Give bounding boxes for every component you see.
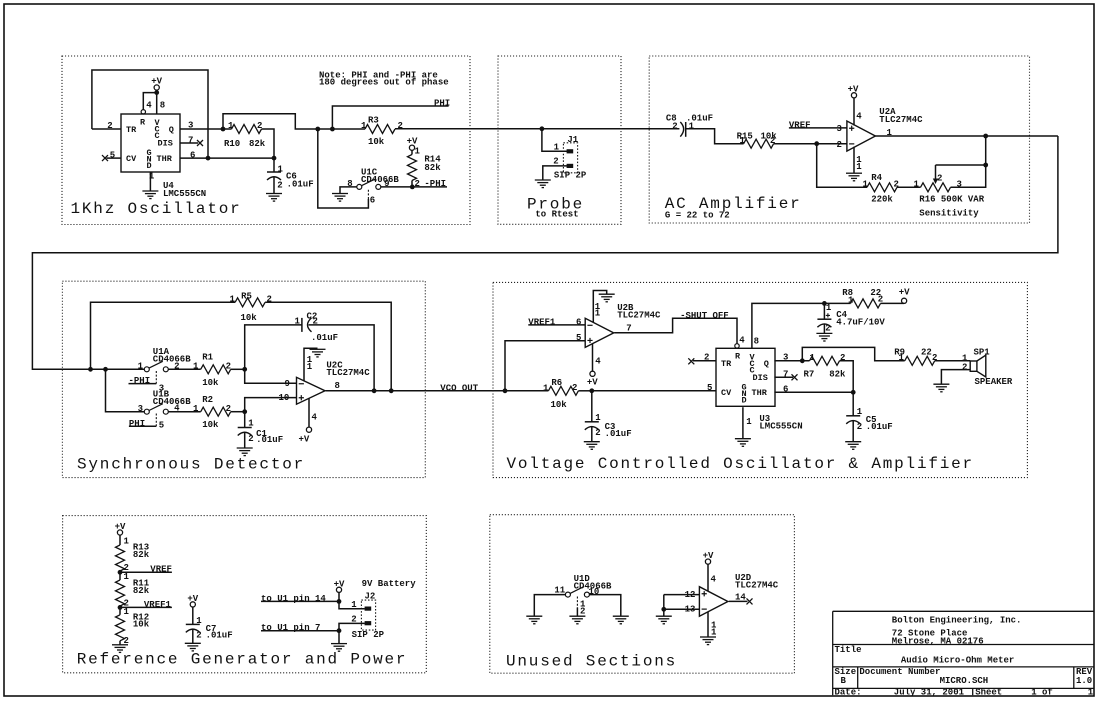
- svg-text:+V: +V: [115, 522, 126, 532]
- svg-text:TLC27M4C: TLC27M4C: [617, 311, 661, 321]
- svg-text:R: R: [735, 352, 741, 362]
- op-amp U2B: [585, 318, 614, 347]
- svg-text:1: 1: [228, 121, 234, 131]
- svg-text:Q: Q: [169, 125, 174, 135]
- svg-text:10: 10: [279, 393, 290, 403]
- svg-text:+V: +V: [187, 594, 198, 604]
- wire VREF1 stub: [120, 606, 172, 608]
- wire U2B output to U3 pin4: [614, 318, 737, 343]
- svg-text:+V: +V: [407, 137, 418, 147]
- ground U4 pin1: [142, 191, 158, 199]
- svg-text:.01uF: .01uF: [287, 179, 314, 189]
- wire C2 to output node: [309, 325, 375, 391]
- wire VREF1 to U2B pin6: [528, 324, 585, 326]
- node input A: [88, 367, 93, 372]
- node inverting input: [814, 141, 819, 146]
- wire U2A output: [875, 135, 1058, 137]
- svg-text:1: 1: [689, 122, 695, 132]
- svg-text:-PHI: -PHI: [424, 179, 446, 189]
- svg-text:82k: 82k: [249, 139, 266, 149]
- node VREF1: [118, 605, 123, 610]
- wire C2 branch: [245, 325, 302, 369]
- svg-text:1: 1: [124, 537, 130, 547]
- wire R10 pin2 to THR node: [262, 129, 275, 158]
- svg-text:82k: 82k: [133, 550, 150, 560]
- svg-text:22: 22: [921, 347, 932, 357]
- svg-text:7: 7: [626, 324, 631, 334]
- wire U4 pin7 DIS: [180, 142, 198, 144]
- potentiometer R16: [921, 183, 951, 192]
- svg-text:82k: 82k: [133, 586, 150, 596]
- wire U4 pin3 Q to R10: [180, 128, 232, 130]
- svg-text:.01uF: .01uF: [311, 333, 338, 343]
- svg-text:J1: J1: [567, 135, 578, 145]
- power +V U2A: [851, 93, 856, 98]
- wire node to U2C pin10: [245, 398, 297, 412]
- svg-text:1: 1: [914, 180, 920, 190]
- R16 wiper arrow: [935, 165, 937, 180]
- wire wiper to output node: [936, 164, 986, 166]
- svg-text:CD4066B: CD4066B: [361, 175, 399, 185]
- svg-text:Title: Title: [835, 645, 862, 655]
- wire U3 pin8 VCC: [752, 303, 825, 348]
- op-amp U2D: [699, 587, 728, 617]
- svg-text:VREF1: VREF1: [528, 318, 556, 328]
- svg-text:4: 4: [312, 413, 318, 423]
- svg-text:12: 12: [685, 590, 696, 600]
- wire R12 to ground: [119, 641, 121, 645]
- power +V R13: [117, 530, 122, 535]
- wire R4 to R16: [897, 186, 921, 188]
- ground C5: [845, 442, 861, 450]
- svg-text:8: 8: [160, 101, 165, 111]
- svg-text:R6: R6: [551, 378, 562, 388]
- svg-text:.01uF: .01uF: [256, 435, 283, 445]
- svg-text:-SHUT OFF: -SHUT OFF: [680, 311, 729, 321]
- svg-text:.01uF: .01uF: [206, 630, 233, 640]
- svg-text:4: 4: [739, 336, 745, 346]
- svg-text:VREF1: VREF1: [144, 600, 172, 610]
- svg-text:6: 6: [370, 196, 375, 206]
- wire to R8: [824, 302, 850, 304]
- node Q output: [221, 127, 226, 132]
- node battery minus: [337, 628, 342, 633]
- svg-text:Date:: Date:: [835, 688, 862, 698]
- U4 pin4 bubble: [141, 110, 145, 114]
- node output feedback: [983, 134, 988, 139]
- node R2 output: [242, 409, 247, 414]
- wire U2B pin11 to ground: [593, 291, 606, 323]
- wire input bus: [91, 368, 147, 370]
- svg-text:THR: THR: [157, 154, 173, 164]
- no-connect U2D pin14: [747, 598, 753, 604]
- svg-text:5: 5: [576, 333, 581, 343]
- switch U1D: [565, 587, 589, 598]
- svg-text:1: 1: [230, 295, 236, 305]
- svg-text:1: 1: [554, 143, 560, 153]
- svg-text:2: 2: [837, 140, 842, 150]
- capacitor C4 polarized: [823, 303, 825, 319]
- svg-text:220k: 220k: [871, 195, 893, 205]
- wire U3 pin1 GND: [742, 407, 744, 439]
- svg-text:+V: +V: [703, 551, 714, 561]
- svg-text:4.7uF/10V: 4.7uF/10V: [836, 318, 885, 328]
- U1D control dashed: [576, 597, 578, 608]
- svg-text:CD4066B: CD4066B: [153, 355, 191, 365]
- svg-text:2: 2: [857, 422, 862, 432]
- svg-text:PHI: PHI: [129, 419, 145, 429]
- svg-text:1: 1: [856, 162, 862, 172]
- resistor R11: [116, 580, 125, 606]
- svg-text:1: 1: [351, 600, 357, 610]
- resistor R10: [232, 125, 262, 134]
- svg-text:.01uF: .01uF: [866, 422, 893, 432]
- node wiper junction: [983, 163, 988, 168]
- svg-text:10k: 10k: [368, 137, 385, 147]
- wire U1D pin11 to ground: [534, 595, 565, 617]
- svg-text:D: D: [742, 395, 747, 405]
- wire probe tap to J1 pin1: [542, 129, 567, 151]
- svg-text:PHI: PHI: [434, 98, 450, 108]
- ground U1D pin11: [526, 616, 542, 624]
- ground C4: [816, 333, 832, 341]
- svg-text:82k: 82k: [424, 163, 441, 173]
- wire R5 to output node: [265, 302, 391, 391]
- resistor R2: [201, 407, 231, 416]
- -PHI control stub: [129, 383, 157, 385]
- wire U4 pin5 CV: [107, 157, 122, 159]
- svg-text:B: B: [841, 676, 847, 686]
- ground U2D input: [656, 616, 672, 624]
- no-connect U4 pin5: [102, 155, 108, 161]
- wire U1C pin9 to R14: [381, 186, 413, 188]
- svg-text:+V: +V: [587, 377, 598, 387]
- svg-text:+V: +V: [899, 288, 910, 298]
- title block frame: [833, 611, 1094, 695]
- U1C control dashed: [367, 189, 369, 200]
- svg-text:SIP 2P: SIP 2P: [554, 171, 587, 181]
- U4 555 timer body: [121, 114, 180, 172]
- resistor R12: [116, 615, 125, 641]
- no-connect U3 pin7: [792, 374, 798, 380]
- svg-text:180 degrees out of phase: 180 degrees out of phase: [319, 78, 449, 88]
- wire U2B pin4 to +V: [592, 343, 594, 371]
- svg-text:2: 2: [704, 353, 709, 363]
- svg-text:D: D: [147, 161, 152, 171]
- no-connect U3 pin2: [688, 358, 694, 364]
- node C2 feedback: [372, 388, 377, 393]
- svg-text:1: 1: [248, 419, 254, 429]
- resistor R14: [408, 155, 417, 181]
- svg-text:2: 2: [107, 121, 112, 131]
- node R14 bottom: [410, 185, 415, 190]
- wire R15 to U2A pin2: [774, 143, 847, 145]
- svg-text:10k: 10k: [133, 620, 150, 630]
- wire U1A to R1: [168, 368, 200, 370]
- wire U3 pin6 THR: [774, 391, 853, 393]
- svg-text:1: 1: [899, 353, 905, 363]
- resistor R6: [548, 386, 578, 395]
- svg-text:10k: 10k: [551, 400, 568, 410]
- wire U3 pin2 TR: [693, 360, 716, 362]
- svg-text:1: 1: [887, 128, 893, 138]
- switch U1A: [144, 361, 168, 372]
- svg-text:2: 2: [672, 122, 677, 132]
- svg-text:1: 1: [307, 362, 313, 372]
- svg-text:6: 6: [783, 384, 788, 394]
- wire R8 to +V: [881, 302, 905, 304]
- section box Reference Generator: [63, 516, 427, 673]
- wire R11 to VREF1 node: [119, 606, 121, 615]
- svg-text:14: 14: [735, 592, 746, 602]
- svg-text:DIS: DIS: [753, 373, 768, 383]
- ground U3: [735, 439, 751, 447]
- svg-text:5: 5: [707, 383, 712, 393]
- capacitor C8: [680, 122, 683, 137]
- U1B control dashed: [155, 414, 157, 427]
- svg-text:10k: 10k: [241, 313, 258, 323]
- wire node to J2 pin1: [339, 601, 365, 608]
- node TR-THR junction: [206, 156, 211, 161]
- wire U4 pin6 THR: [180, 157, 274, 159]
- svg-text:1: 1: [848, 295, 854, 305]
- svg-text:SP1: SP1: [974, 347, 991, 357]
- svg-text:82k: 82k: [829, 370, 846, 380]
- wire U2C pin11 to ground: [304, 348, 318, 381]
- svg-text:Voltage Controlled Oscillator: Voltage Controlled Oscillator & Amplifie…: [507, 455, 974, 473]
- connector J1: [563, 143, 577, 173]
- svg-text:Q: Q: [764, 359, 769, 369]
- node U2D input: [661, 607, 666, 612]
- section box Unused Sections: [490, 515, 795, 674]
- svg-text:THR: THR: [752, 388, 768, 398]
- resistor R9: [905, 356, 935, 365]
- svg-text:3: 3: [837, 124, 842, 134]
- ground U2B: [599, 294, 615, 302]
- svg-text:.01uF: .01uF: [605, 429, 632, 439]
- node R1 output: [242, 367, 247, 372]
- section box VCO: [493, 282, 1027, 477]
- svg-text:6: 6: [190, 150, 195, 160]
- svg-text:Sheet: Sheet: [975, 688, 1002, 698]
- wire R2 to node: [231, 411, 245, 413]
- wire to U1 pin 7: [261, 630, 339, 632]
- svg-text:1: 1: [196, 616, 202, 626]
- svg-text:R: R: [140, 117, 146, 127]
- svg-text:R2: R2: [202, 395, 213, 405]
- wire R9 to speaker: [935, 360, 971, 362]
- svg-text:Sensitivity: Sensitivity: [919, 209, 979, 219]
- power +V U4: [154, 85, 159, 90]
- wire U1C pin8 to ground: [340, 187, 357, 194]
- wire U2D pin11 to ground: [707, 612, 709, 637]
- wire +V to C7: [192, 607, 194, 624]
- svg-text:SIP 2P: SIP 2P: [352, 630, 385, 640]
- svg-text:LMC555CN: LMC555CN: [163, 189, 206, 199]
- capacitor C5: [852, 392, 854, 416]
- svg-text:MICRO.SCH: MICRO.SCH: [940, 676, 989, 686]
- node CV: [589, 388, 594, 393]
- wire U2D pin13: [663, 595, 665, 617]
- wire U2D pin14 output: [729, 600, 748, 602]
- svg-text:to Rtest: to Rtest: [535, 210, 578, 220]
- svg-text:4: 4: [711, 575, 717, 585]
- ground C7: [185, 643, 201, 651]
- wire AC amp output to sync detector: [32, 136, 1058, 369]
- svg-text:-PHI: -PHI: [129, 376, 151, 386]
- svg-text:CV: CV: [721, 388, 732, 398]
- wire U2A pin4 to +V: [853, 98, 855, 126]
- capacitor C6: [273, 158, 275, 172]
- power +V R14: [409, 145, 414, 150]
- wire PHI net stub: [332, 106, 448, 129]
- wire VREF to U2A pin3: [789, 127, 847, 129]
- wire TR feedback loop: [92, 70, 208, 158]
- ground U1C: [332, 194, 348, 202]
- svg-text:1: 1: [746, 417, 752, 427]
- svg-text:4: 4: [595, 357, 601, 367]
- node THR C5: [851, 390, 856, 395]
- wire R5 feedback top: [91, 302, 236, 369]
- node VCO input: [503, 388, 508, 393]
- svg-text:J2: J2: [365, 591, 376, 601]
- svg-text:R1: R1: [202, 353, 213, 363]
- svg-text:2: 2: [277, 180, 282, 190]
- wire U4 pin8 VCC: [156, 90, 158, 114]
- svg-text:SPEAKER: SPEAKER: [975, 377, 1013, 387]
- svg-text:TR: TR: [721, 359, 732, 369]
- svg-text:1: 1: [361, 121, 367, 131]
- svg-text:9: 9: [285, 379, 290, 389]
- svg-text:1: 1: [193, 404, 199, 414]
- PHI control stub: [129, 425, 156, 427]
- svg-text:2: 2: [572, 383, 577, 393]
- svg-text:1: 1: [826, 303, 832, 313]
- svg-text:VCO OUT: VCO OUT: [440, 383, 478, 393]
- U3 pin4 bubble: [735, 344, 739, 348]
- node R5 feedback: [389, 388, 394, 393]
- section box Probe: [498, 56, 621, 224]
- svg-text:2: 2: [595, 428, 600, 438]
- svg-text:3: 3: [138, 404, 143, 414]
- svg-text:8: 8: [347, 179, 352, 189]
- svg-text:1: 1: [138, 362, 144, 372]
- svg-text:2: 2: [398, 121, 403, 131]
- svg-text:DIS: DIS: [158, 139, 173, 149]
- svg-text:CD4066B: CD4066B: [153, 397, 191, 407]
- svg-text:TLC27M4C: TLC27M4C: [879, 115, 923, 125]
- node U1C control branch: [315, 127, 320, 132]
- svg-text:to U1 pin 14: to U1 pin 14: [261, 594, 326, 604]
- wire VREF stub: [120, 571, 172, 573]
- U1A control dashed: [155, 371, 157, 384]
- svg-text:1: 1: [711, 628, 717, 638]
- svg-text:2: 2: [553, 156, 558, 166]
- svg-text:9V Battery: 9V Battery: [362, 579, 417, 589]
- svg-text:Melrose, MA 02176: Melrose, MA 02176: [892, 637, 984, 647]
- svg-text:8: 8: [335, 381, 340, 391]
- wire U1C control from Q node: [318, 129, 369, 208]
- connector J2: [361, 600, 375, 630]
- svg-text:1: 1: [124, 607, 130, 617]
- svg-text:5: 5: [110, 150, 115, 160]
- svg-text:+V: +V: [334, 580, 345, 590]
- power +V U2C: [306, 427, 311, 432]
- section box Synchronous Detector: [62, 281, 425, 477]
- wire Q bypass to R9: [802, 347, 904, 360]
- power +V U2B: [590, 371, 595, 376]
- svg-text:R5: R5: [241, 291, 252, 301]
- svg-text:TLC27M4C: TLC27M4C: [735, 581, 779, 591]
- node THR-C6 junction: [272, 156, 277, 161]
- wire U4 pin4 to +V: [143, 93, 156, 110]
- svg-text:8: 8: [754, 337, 759, 347]
- wire U2D pin4 to +V: [707, 564, 709, 591]
- svg-text:1: 1: [193, 362, 199, 372]
- wire R16 pin3 up to output: [951, 136, 986, 187]
- no-connect U4 pin7: [197, 140, 203, 146]
- svg-text:4: 4: [146, 101, 152, 111]
- wire U1D pin10 to ground: [589, 595, 620, 617]
- svg-text:1: 1: [543, 384, 549, 394]
- wire node to U2C pin9: [245, 369, 297, 383]
- wire +V to R13: [119, 535, 121, 545]
- svg-text:+V: +V: [299, 435, 310, 445]
- svg-text:10k: 10k: [202, 420, 219, 430]
- node PHI branch: [330, 127, 335, 132]
- svg-text:R4: R4: [871, 173, 882, 183]
- wire U4 pin1 GND: [149, 172, 151, 191]
- wire R7 to THR node: [840, 361, 854, 393]
- wire feedback down to R4: [817, 144, 867, 188]
- svg-text:2: 2: [248, 434, 253, 444]
- node C4 junction: [822, 301, 827, 306]
- wire Q bypass over R10: [223, 114, 365, 129]
- svg-text:R7: R7: [804, 370, 815, 380]
- wire U1B to R2: [168, 411, 200, 413]
- ground U1D pin10: [613, 616, 629, 624]
- resistor R7: [810, 356, 840, 365]
- node +V junction: [154, 90, 159, 95]
- resistor R8: [851, 299, 881, 308]
- svg-text:1 of: 1 of: [1031, 688, 1053, 698]
- svg-text:2: 2: [226, 362, 231, 372]
- svg-text:1: 1: [415, 147, 421, 157]
- wire C8 to R15: [686, 129, 744, 144]
- wire SP1 pin2 to ground: [941, 370, 970, 385]
- svg-text:2: 2: [196, 631, 201, 641]
- svg-text:4: 4: [856, 112, 862, 122]
- wire R1 to node: [231, 368, 245, 370]
- wire U1B branch: [106, 369, 145, 411]
- power +V C7: [190, 602, 195, 607]
- svg-text:VREF: VREF: [789, 120, 811, 130]
- svg-text:+V: +V: [151, 77, 162, 87]
- svg-text:1.0: 1.0: [1076, 676, 1092, 686]
- node battery plus: [337, 599, 342, 604]
- capacitor C1: [244, 412, 246, 428]
- svg-text:1: 1: [863, 180, 869, 190]
- ground J2: [331, 644, 347, 652]
- wire -PHI net stub: [412, 186, 447, 188]
- svg-text:1Khz Oscillator: 1Khz Oscillator: [71, 200, 242, 218]
- node VREF: [118, 570, 123, 575]
- wire main signal to AC amp: [395, 128, 679, 130]
- switch U1C: [357, 179, 381, 190]
- svg-text:July 31, 2001: July 31, 2001: [894, 688, 965, 698]
- svg-text:1: 1: [278, 164, 284, 174]
- section box 1Khz Oscillator: [62, 56, 470, 225]
